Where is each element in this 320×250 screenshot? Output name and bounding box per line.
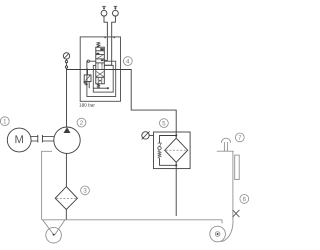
handle bar bbox=[235, 155, 240, 179]
wire A coupling to valve bbox=[104, 16, 115, 65]
quick coupling QC-A top symbol bbox=[113, 6, 119, 16]
motor M1 bbox=[7, 128, 31, 152]
return filter box bbox=[154, 132, 191, 169]
label 4 bbox=[123, 57, 132, 66]
shaft coupling bbox=[31, 135, 38, 137]
valve section1 marks bbox=[100, 48, 103, 50]
castor left fork bbox=[43, 220, 54, 235]
spring bottom of valve bbox=[97, 84, 100, 88]
filter to tank line bbox=[65, 210, 67, 220]
drain line with plug bbox=[93, 87, 108, 89]
castor left wheel bbox=[46, 227, 62, 243]
quick coupling QC-B top symbol bbox=[101, 6, 107, 16]
frame bottom bbox=[42, 220, 222, 224]
label 2 bbox=[77, 118, 86, 127]
valve section3 straight arrows bbox=[97, 63, 99, 70]
frame right edge bbox=[232, 151, 234, 219]
valve block outer box bbox=[80, 37, 120, 101]
filter to tank drop bbox=[175, 169, 177, 216]
pump suction line bbox=[65, 153, 67, 186]
spring top of valve bbox=[97, 42, 100, 47]
valve lower body bbox=[96, 70, 105, 84]
pressure text bbox=[79, 103, 95, 106]
frame top-left bbox=[42, 151, 52, 220]
castor right wheel bbox=[210, 226, 226, 242]
suction filter F1 bbox=[55, 187, 77, 210]
gauge port M circle bbox=[87, 60, 89, 62]
valve main body bbox=[96, 47, 105, 69]
trolley frame bbox=[42, 138, 240, 243]
supply line pump to valve bbox=[66, 69, 96, 71]
label 3 bbox=[81, 186, 90, 195]
inner box bbox=[93, 65, 113, 92]
label 7 bbox=[235, 133, 244, 142]
port tick B on box top bbox=[104, 36, 106, 38]
item labels bbox=[0, 57, 248, 204]
pressure riser pump to tee bbox=[66, 70, 68, 128]
handle plate bbox=[217, 150, 234, 152]
handle grip bbox=[221, 138, 230, 143]
valve section2 marks bbox=[96, 53, 99, 55]
bypass check valve bbox=[160, 136, 177, 144]
X section bbox=[97, 72, 104, 77]
port tick A on box top bbox=[113, 36, 115, 38]
return filter element bbox=[165, 138, 188, 162]
brake X mark bbox=[233, 210, 240, 217]
label 5 bbox=[160, 119, 169, 128]
wire B coupling to valve bbox=[104, 16, 107, 60]
middle box bbox=[87, 61, 116, 96]
castor right bracket bbox=[222, 218, 234, 242]
label 6 bbox=[240, 195, 249, 204]
pump P1 bbox=[54, 127, 80, 153]
relief valve RV 180bar bbox=[87, 70, 89, 75]
clogging indicator bbox=[142, 132, 149, 139]
return line valve to filter bbox=[96, 70, 176, 133]
lower closed section marks bbox=[97, 78, 99, 84]
label 1 bbox=[0, 117, 9, 126]
pressure test point gauge bbox=[63, 53, 69, 59]
relief spring bbox=[84, 82, 87, 86]
